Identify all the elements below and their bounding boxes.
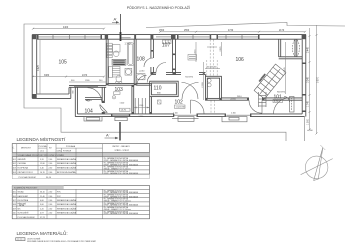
svg-text:KERAMICKÁ DLAŽBA: KERAMICKÁ DLAŽBA	[57, 162, 77, 165]
svg-text:PLOCHA CELKEM: PLOCHA CELKEM	[18, 216, 35, 219]
svg-text:2 445: 2 445	[307, 46, 309, 52]
svg-text:A´: A´	[114, 16, 118, 21]
svg-text:103: 103	[115, 87, 124, 93]
svg-text:1550: 1550	[159, 30, 165, 32]
svg-text:107: 107	[13, 200, 16, 202]
svg-text:VYKAZOVANÉ PROSTORY PRO ÚČELY: VYKAZOVANÉ PROSTORY PRO ÚČELY VÝMĚR	[18, 154, 65, 157]
svg-text:-0,450: -0,450	[307, 130, 314, 132]
svg-text:1 915: 1 915	[194, 49, 196, 55]
svg-text:3 245: 3 245	[307, 76, 309, 82]
svg-text:1 900: 1 900	[307, 118, 309, 124]
svg-text:3380: 3380	[44, 75, 50, 77]
svg-text:SV.: SV.	[49, 148, 52, 150]
svg-text:SCHODIŠTĚ: SCHODIŠTĚ	[18, 212, 30, 215]
svg-text:14,70: 14,70	[40, 172, 45, 174]
svg-text:2,60: 2,60	[49, 172, 53, 174]
svg-text:PŮDORYS 1. NADZEMNÍHO PODLAŽÍ: PŮDORYS 1. NADZEMNÍHO PODLAŽÍ	[127, 5, 190, 10]
svg-text:1 100: 1 100	[139, 105, 144, 107]
svg-text:ZÁDVEŘÍ: ZÁDVEŘÍ	[18, 158, 27, 161]
svg-text:4,60: 4,60	[40, 200, 44, 202]
svg-text:102: 102	[175, 100, 184, 106]
svg-text:PLOCHA: PLOCHA	[39, 145, 48, 148]
svg-text:1 100: 1 100	[173, 112, 178, 114]
svg-text:2,60: 2,60	[49, 204, 53, 206]
svg-text:ZDIVO NOSNÉ: ZDIVO NOSNÉ	[27, 238, 41, 241]
svg-text:2,60: 2,60	[49, 159, 53, 161]
svg-text:BETONOVÁ DLAŽBA: BETONOVÁ DLAŽBA	[57, 171, 76, 174]
svg-text:108: 108	[13, 204, 16, 206]
svg-text:KOUPELNA: KOUPELNA	[18, 167, 29, 170]
svg-text:880: 880	[157, 93, 161, 95]
svg-text:KERAMICKÁ DLAŽBA: KERAMICKÁ DLAŽBA	[57, 207, 77, 210]
svg-text:107: 107	[162, 43, 171, 49]
svg-text:LEGENDA MÍSTNOSTÍ: LEGENDA MÍSTNOSTÍ	[17, 136, 67, 142]
svg-text:1 780: 1 780	[125, 44, 131, 46]
svg-text:KANCELÁŘ: KANCELÁŘ	[18, 195, 29, 198]
svg-text:900: 900	[73, 89, 75, 93]
svg-text:14,70: 14,70	[121, 110, 127, 112]
svg-text:2470: 2470	[82, 75, 88, 77]
svg-text:4,97: 4,97	[40, 213, 44, 215]
svg-text:KUCHYŇKA: KUCHYŇKA	[18, 199, 29, 202]
svg-text:110: 110	[13, 213, 16, 215]
svg-text:MÍSTNOST: MÍSTNOST	[21, 147, 32, 150]
svg-text:1,52/2,80: 1,52/2,80	[176, 107, 186, 109]
svg-text:PLOCHA CELKEM: PLOCHA CELKEM	[19, 176, 36, 179]
svg-text:21,40: 21,40	[40, 196, 45, 198]
svg-text:PVC: PVC	[57, 196, 62, 198]
svg-text:Č.: Č.	[13, 147, 15, 150]
svg-text:109: 109	[13, 208, 16, 210]
svg-text:9 870: 9 870	[318, 76, 320, 82]
svg-text:KERAMICKÁ DLAŽBA: KERAMICKÁ DLAŽBA	[57, 199, 77, 202]
svg-text:1 745: 1 745	[307, 100, 309, 106]
svg-text:2550: 2550	[184, 30, 190, 32]
svg-text:POVRCH: POVRCH	[63, 150, 72, 152]
svg-text:57,21: 57,21	[40, 217, 46, 219]
svg-text:105: 105	[13, 192, 16, 194]
svg-text:PVC: PVC	[57, 192, 62, 194]
svg-text:2,60: 2,60	[49, 208, 53, 210]
svg-text:2 400: 2 400	[231, 112, 236, 114]
svg-text:110: 110	[154, 86, 162, 92]
svg-text:105: 105	[59, 60, 68, 66]
svg-text:2170: 2170	[279, 30, 285, 32]
svg-text:49: 49	[86, 99, 90, 103]
svg-text:900/1970: 900/1970	[277, 92, 285, 94]
svg-text:102: 102	[13, 163, 16, 165]
svg-text:106: 106	[13, 196, 16, 198]
svg-text:PODLAHA: PODLAHA	[66, 145, 76, 148]
svg-text:2,60: 2,60	[49, 213, 53, 215]
svg-text:1 400: 1 400	[120, 102, 125, 104]
svg-text:OBÝVACÍ POKOJ: OBÝVACÍ POKOJ	[18, 171, 33, 174]
svg-text:LEGENDA MATERIÁLŮ:: LEGENDA MATERIÁLŮ:	[17, 230, 68, 236]
svg-text:3,20: 3,20	[40, 159, 44, 161]
svg-text:2,60: 2,60	[49, 168, 53, 170]
svg-text:KERAMICKÁ DLAŽBA: KERAMICKÁ DLAŽBA	[57, 212, 77, 215]
svg-text:3,60: 3,60	[40, 204, 44, 206]
svg-text:4 425: 4 425	[38, 64, 40, 70]
svg-text:101: 101	[13, 159, 16, 161]
svg-text:VN - VÁPENNÁ ŠTUKOVÁ OMÍTKA: VN - VÁPENNÁ ŠTUKOVÁ OMÍTKA	[104, 157, 128, 160]
svg-text:1 710: 1 710	[139, 116, 144, 118]
svg-text:2,60: 2,60	[49, 196, 53, 198]
svg-text:OZN.: OZN.	[57, 150, 62, 152]
svg-text:+0,000: +0,000	[230, 99, 236, 101]
svg-text:5,40: 5,40	[40, 168, 44, 170]
svg-text:103: 103	[13, 168, 16, 170]
svg-text:2,60: 2,60	[49, 200, 53, 202]
svg-text:36,10: 36,10	[40, 192, 45, 194]
svg-text:2,60: 2,60	[49, 192, 53, 194]
svg-text:16x178/280: 16x178/280	[259, 74, 266, 83]
svg-text:OMÍTKY - OBKLADY: OMÍTKY - OBKLADY	[112, 145, 131, 148]
svg-text:2 865: 2 865	[220, 46, 222, 52]
svg-text:750/1970: 750/1970	[185, 77, 193, 79]
svg-text:PŘEDSÍŇ: PŘEDSÍŇ	[18, 202, 27, 205]
svg-text:2 390: 2 390	[202, 82, 204, 88]
svg-text:2,20: 2,20	[40, 208, 44, 210]
svg-text:4730: 4730	[228, 30, 234, 32]
svg-text:SKLAD: SKLAD	[18, 191, 25, 194]
svg-text:KERAMICKÁ DLAŽBA: KERAMICKÁ DLAŽBA	[57, 167, 77, 170]
svg-text:300 300 300: 300 300 300	[207, 67, 217, 69]
svg-text:12,80: 12,80	[40, 163, 45, 165]
svg-text:(m²): (m²)	[40, 149, 44, 152]
svg-text:CHODBA: CHODBA	[18, 162, 27, 165]
svg-text:STĚNY - STROP: STĚNY - STROP	[115, 149, 130, 152]
svg-text:4400: 4400	[63, 27, 69, 29]
svg-text:-0,010: -0,010	[139, 71, 144, 73]
svg-text:KOMERČNÍ PROSTORY: KOMERČNÍ PROSTORY	[14, 187, 38, 190]
svg-text:36,10: 36,10	[46, 177, 52, 179]
svg-text:A´: A´	[106, 132, 110, 137]
svg-text:2,60: 2,60	[49, 163, 53, 165]
svg-text:2 445: 2 445	[284, 67, 286, 73]
svg-text:VN - VÁPENNÁ ŠTUKOVÁ OMÍTKA: VN - VÁPENNÁ ŠTUKOVÁ OMÍTKA	[104, 189, 128, 192]
svg-text:104: 104	[13, 172, 16, 174]
svg-text:KERAMICKÁ DLAŽBA: KERAMICKÁ DLAŽBA	[57, 203, 77, 206]
svg-text:108: 108	[137, 57, 146, 63]
svg-text:106: 106	[236, 57, 245, 63]
svg-text:KERAMICKÁ DLAŽBA: KERAMICKÁ DLAŽBA	[57, 158, 77, 161]
svg-text:104: 104	[85, 109, 94, 115]
